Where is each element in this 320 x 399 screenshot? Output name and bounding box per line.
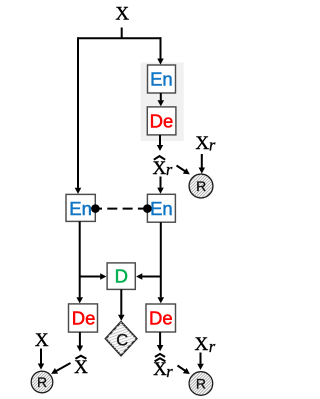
wire: En3 branch left into D	[142, 276, 161, 278]
junction dot on En3 left edge	[143, 204, 152, 213]
wire: Xhathat_r diagonal into R3	[178, 366, 185, 371]
svg-text:De: De	[150, 110, 174, 131]
encoder box En1 (top right)	[148, 65, 176, 93]
svg-text:r: r	[166, 362, 173, 381]
svg-text:C: C	[116, 331, 128, 349]
shaded strip behind top En/De column	[141, 63, 184, 142]
label Xhathat_r (bottom right double reconstruction)	[153, 354, 173, 381]
svg-text:X: X	[74, 357, 88, 378]
label X_r (top right reference)	[195, 133, 215, 154]
svg-text:r: r	[209, 135, 216, 154]
svg-text:De: De	[149, 308, 173, 329]
wire: En3 down into De3	[160, 222, 162, 297]
wire: D down into C diamond	[120, 289, 122, 315]
wire: left long vertical drop into En2	[77, 37, 79, 188]
svg-text:X: X	[195, 334, 209, 355]
wire: top horizontal branch	[78, 37, 161, 39]
wire: dashed latent alignment between En2 and En3	[92, 208, 148, 210]
svg-text:X: X	[153, 158, 167, 179]
svg-text:R: R	[196, 178, 206, 194]
svg-text:X: X	[35, 330, 49, 351]
svg-text:R: R	[196, 376, 206, 392]
svg-text:D: D	[115, 266, 128, 287]
svg-text:r: r	[209, 337, 216, 356]
svg-text:De: De	[72, 308, 96, 329]
svg-text:R: R	[37, 374, 47, 390]
wire: En2 branch right into D	[80, 276, 101, 278]
wire: De3 down to Xhathat_r	[159, 332, 161, 345]
label Xhat_r (reconstructed X_r)	[153, 156, 173, 179]
svg-text:X: X	[115, 3, 129, 24]
wire: Xhat diagonal into R2	[56, 363, 70, 371]
svg-text:r: r	[166, 160, 173, 179]
svg-text:X: X	[195, 133, 209, 154]
comparison node R2 (bottom left circle)	[18, 370, 68, 393]
discriminator box D (middle)	[107, 263, 135, 290]
wire: Xhat_r down into En3	[160, 177, 162, 188]
comparison node R1 (top right circle)	[174, 174, 228, 198]
decoder box De1 (top right)	[147, 107, 176, 135]
svg-text:En: En	[69, 198, 92, 219]
wire: De1 to Xhat_r	[159, 135, 161, 145]
wire: X down into R2	[40, 349, 42, 364]
wire: En2 down into De2	[79, 221, 81, 297]
classifier diamond C	[104, 311, 138, 371]
svg-text:En: En	[150, 198, 173, 219]
label X_r (bottom right reference)	[195, 334, 216, 356]
wire: X_r down into R3	[200, 353, 202, 364]
wire: De2 down to Xhat	[79, 332, 81, 346]
wire: stub below X	[121, 28, 123, 39]
comparison node R3 (bottom right circle)	[173, 371, 228, 396]
label Xhat (bottom left reconstruction)	[74, 356, 88, 378]
wire: Xhat_r diagonal into R1	[177, 166, 185, 172]
wire: right vertical drop into En1	[160, 37, 162, 58]
junction dot on En2 right edge	[91, 204, 100, 213]
svg-text:En: En	[150, 69, 173, 90]
wire: En1 to De1	[160, 93, 162, 100]
decoder box De3 (bottom right)	[146, 304, 176, 332]
decoder box De2 (bottom left)	[69, 304, 98, 332]
wire: X_r down into R1	[201, 154, 203, 168]
encoder box En3 (middle right)	[147, 194, 175, 222]
encoder box En2 (middle left)	[66, 194, 95, 221]
